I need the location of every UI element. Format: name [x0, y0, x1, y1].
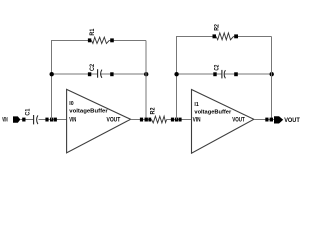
svg-text:I0: I0 — [69, 101, 74, 107]
wire opamp2 out — [254, 119, 274, 121]
stage2 left vertical wire — [176, 36, 178, 119]
output pin — [274, 116, 283, 123]
terminal square — [179, 118, 182, 122]
node A junction — [50, 118, 53, 122]
C4 terminals — [213, 72, 216, 76]
svg-text:voltageBuffer: voltageBuffer — [69, 108, 107, 114]
C2 terminals — [88, 72, 91, 76]
wire C1 to opamp — [38, 119, 66, 121]
stage2 mid rail wire — [176, 73, 272, 75]
terminal square — [171, 118, 174, 122]
svg-text:R1: R1 — [90, 28, 96, 36]
stage2 top rail wire — [176, 35, 272, 37]
capacitor C4 — [222, 70, 226, 79]
resistor R3 — [216, 33, 234, 40]
wire R2 to opamp2 — [167, 119, 192, 121]
svg-text:C2: C2 — [90, 63, 96, 71]
stage2 right vertical wire — [271, 36, 273, 119]
svg-text:voltageBuffer: voltageBuffer — [194, 110, 231, 116]
terminal square — [148, 118, 151, 122]
terminal square — [45, 118, 48, 122]
svg-text:VOUT: VOUT — [284, 117, 300, 124]
stage1 mid rail wire — [51, 73, 146, 75]
terminal square — [54, 118, 57, 122]
op-amp I0 — [67, 89, 131, 152]
svg-text:R2: R2 — [151, 107, 157, 115]
svg-text:VIN: VIN — [69, 117, 76, 123]
svg-text:VOUT: VOUT — [107, 117, 121, 123]
capacitor C2 — [98, 69, 102, 78]
svg-text:C2: C2 — [215, 64, 221, 71]
capacitor C1 — [34, 115, 38, 124]
node C junction — [175, 118, 178, 122]
wire input to C1 — [20, 119, 33, 121]
terminal square — [140, 118, 143, 122]
svg-text:VIN: VIN — [193, 117, 201, 123]
terminal square — [265, 118, 268, 122]
junction dot left — [50, 72, 54, 76]
resistor R1 — [91, 37, 109, 43]
op-amp I1 — [192, 90, 254, 154]
stage1 top rail wire — [51, 40, 146, 42]
node B junction — [145, 118, 148, 122]
junction dot right — [270, 72, 274, 76]
svg-text:VIN: VIN — [2, 118, 8, 124]
resistor R1 terminals — [88, 38, 91, 42]
node D junction — [270, 118, 273, 122]
svg-text:VOUT: VOUT — [232, 117, 245, 123]
svg-text:R2: R2 — [214, 24, 220, 31]
resistor R3 terminals — [213, 34, 217, 38]
resistor R2 — [152, 116, 167, 123]
stage1 right vertical wire — [145, 41, 147, 120]
stage1 left vertical wire — [51, 41, 53, 120]
input pin — [13, 116, 20, 122]
wire opamp1 out to R2 — [131, 119, 152, 121]
junction dot left — [174, 72, 178, 76]
junction dot right — [144, 72, 148, 76]
terminal square — [22, 118, 25, 122]
svg-text:C1: C1 — [26, 108, 32, 116]
svg-text:I1: I1 — [194, 102, 199, 108]
